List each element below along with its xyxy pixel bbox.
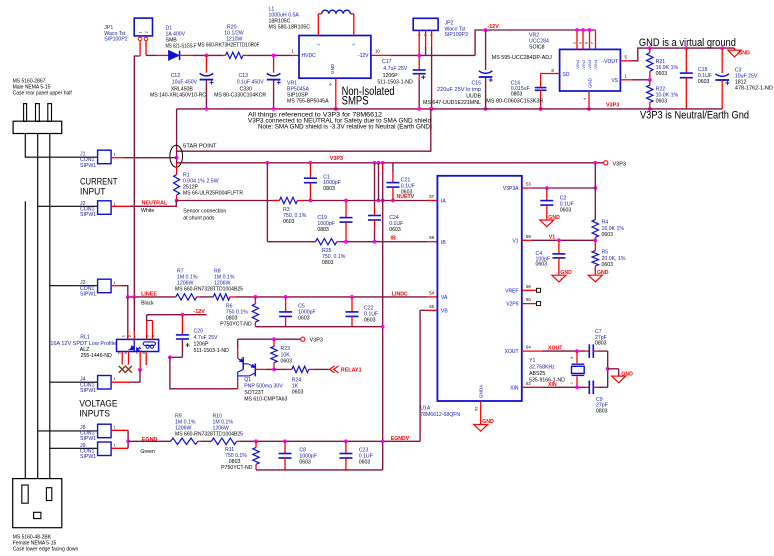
svg-text:at shunt pads: at shunt pads: [183, 216, 215, 222]
wire VB stub: [427, 309, 437, 311]
junctions IB row: [344, 240, 348, 244]
capacitor C19: [345, 201, 347, 218]
svg-text:R5: R5: [602, 250, 609, 256]
ground crystal: [608, 368, 619, 370]
wire plug prong1 down to socket: [24, 201, 26, 478]
wire filter return rail: [255, 326, 382, 328]
wire C20 bottom to node: [170, 356, 183, 358]
junction EGND row: [126, 439, 130, 443]
svg-text:255-1446-ND: 255-1446-ND: [81, 353, 112, 359]
svg-text:0603: 0603: [560, 208, 572, 214]
svg-text:1: 1: [122, 335, 126, 337]
wire J2 neutral: [111, 205, 129, 207]
svg-text:-VIN4: -VIN4: [593, 59, 598, 70]
resistor R4: [592, 220, 598, 238]
junction C12 top: [205, 54, 209, 58]
wire V3P3A pin: [522, 187, 532, 189]
wire XIN: [522, 386, 542, 388]
wire J1 to star: [111, 157, 124, 159]
junction C20 top: [181, 313, 185, 317]
svg-text:MS 621-S1GS-F: MS 621-S1GS-F: [166, 44, 197, 50]
svg-text:LINEE: LINEE: [141, 291, 157, 297]
wire R9-R10: [201, 440, 211, 442]
svg-text:2: 2: [128, 335, 132, 337]
svg-text:0603: 0603: [656, 99, 668, 105]
junctions -VIN: [575, 28, 579, 32]
resistor R22: [649, 80, 651, 85]
svg-text:0603: 0603: [602, 262, 614, 268]
pin 4 VR2 gnd: [588, 91, 590, 109]
svg-text:PNP 500ma 30V: PNP 500ma 30V: [244, 384, 283, 390]
wire V3P3 net rail: [177, 162, 604, 164]
svg-text:White: White: [141, 208, 154, 214]
svg-text:VB: VB: [441, 308, 448, 314]
capacitor C7: [585, 350, 589, 352]
svg-text:MS 755-BP5045A: MS 755-BP5045A: [287, 99, 329, 105]
wire IA row: [303, 200, 427, 202]
svg-text:Note: SMA GND shield is -3.3V: Note: SMA GND shield is -3.3V relative t…: [258, 124, 432, 131]
svg-text:C20: C20: [194, 329, 204, 335]
svg-text:V3P3A: V3P3A: [503, 186, 519, 192]
resistor R24: [274, 368, 287, 370]
wire JP2 pin3: [431, 30, 433, 47]
svg-text:HVDC: HVDC: [302, 53, 317, 59]
svg-text:64: 64: [526, 345, 531, 350]
svg-text:4.7uF 25V: 4.7uF 25V: [383, 66, 407, 72]
wire neutral row: [177, 200, 280, 202]
capacitor C12: [205, 55, 207, 72]
svg-text:1: 1: [114, 426, 116, 430]
svg-text:54: 54: [429, 290, 434, 295]
junction C16 rail: [539, 107, 543, 111]
svg-text:5: 5: [118, 352, 122, 354]
wire J4: [111, 381, 129, 383]
svg-text:0603: 0603: [299, 460, 311, 466]
svg-text:MS 660-RN7328TTD1004B25: MS 660-RN7328TTD1004B25: [175, 287, 243, 293]
junction VR2 gnd rail: [587, 107, 591, 111]
capacitor C24: [374, 163, 376, 206]
svg-text:XIN: XIN: [548, 382, 557, 388]
svg-text:GND: GND: [330, 63, 335, 74]
svg-text:0603: 0603: [656, 71, 668, 77]
svg-text:V3P3: V3P3: [310, 338, 323, 344]
svg-text:8: 8: [551, 68, 554, 73]
svg-text:R4: R4: [602, 220, 609, 226]
svg-text:R23: R23: [281, 346, 291, 352]
svg-text:LINDC: LINDC: [392, 291, 408, 297]
junction base node: [272, 368, 276, 372]
crystal Y1: [576, 351, 578, 363]
svg-text:SMPS: SMPS: [342, 96, 369, 108]
resistor R11: [255, 441, 257, 447]
junctions EGNDV row: [254, 439, 258, 443]
svg-text:3: 3: [352, 44, 356, 46]
svg-text:V3P3: V3P3: [606, 102, 619, 108]
wire V3P3 riser right: [594, 163, 596, 220]
svg-text:1: 1: [114, 153, 116, 157]
svg-text:SOIC8: SOIC8: [529, 45, 545, 51]
svg-text:0.1uF 450V: 0.1uF 450V: [237, 80, 264, 86]
capacitor C1: [309, 163, 311, 178]
svg-text:511-1503-1-ND: 511-1503-1-ND: [194, 348, 230, 354]
svg-text:58: 58: [429, 235, 434, 240]
wire plug prong1 to J1: [25, 134, 97, 158]
svg-text:1: 1: [292, 49, 295, 54]
junction crystal top: [575, 349, 579, 353]
regulator VR2 UCC284: [560, 49, 621, 91]
wire JP1 pin1: [139, 41, 141, 56]
svg-text:0603: 0603: [401, 190, 413, 196]
svg-text:XIN: XIN: [510, 385, 519, 391]
pin V2P5: [522, 303, 536, 305]
svg-text:INPUT: INPUT: [80, 186, 106, 197]
junction V3P3A riser: [593, 186, 597, 190]
resistor R25: [311, 241, 316, 243]
svg-text:XOUT: XOUT: [505, 349, 519, 355]
svg-text:C17: C17: [382, 59, 392, 65]
connector J1: [98, 150, 112, 164]
svg-text:1: 1: [114, 443, 116, 447]
wire relay aux: [145, 352, 147, 366]
svg-text:C15: C15: [471, 81, 481, 87]
svg-text:2: 2: [317, 44, 321, 46]
capacitor C4: [558, 240, 560, 254]
capacitor C3: [721, 48, 723, 73]
svg-text:IB: IB: [441, 240, 446, 246]
svg-text:V2P5: V2P5: [506, 302, 518, 308]
svg-text:VS: VS: [611, 78, 618, 84]
svg-text:P750YCT-ND: P750YCT-ND: [220, 322, 252, 328]
svg-text:MS 610-CMPTA63: MS 610-CMPTA63: [244, 397, 287, 403]
svg-text:52: 52: [473, 406, 478, 411]
wire -12V to coil: [147, 315, 153, 321]
svg-text:-12V: -12V: [488, 24, 500, 30]
pin GNDA: [480, 401, 482, 424]
svg-text:0803: 0803: [595, 341, 607, 347]
wire EGND row: [128, 440, 171, 442]
svg-text:INPUTS: INPUTS: [79, 408, 110, 419]
capacitor C5: [285, 297, 287, 312]
capacitor C22: [351, 297, 353, 312]
junction C2 top: [545, 186, 549, 190]
resistor R3: [274, 200, 280, 202]
wire V3P3 rail: [177, 108, 723, 110]
svg-text:32.768KHz: 32.768KHz: [529, 365, 555, 371]
wire VB riser: [419, 310, 421, 441]
wire R20 to HVDC pin: [247, 54, 290, 56]
svg-text:Y1: Y1: [529, 358, 535, 364]
svg-text:1: 1: [570, 382, 574, 384]
svg-text:4: 4: [583, 98, 587, 100]
svg-text:SOT23T: SOT23T: [244, 390, 264, 396]
wire to RELAY1: [313, 368, 329, 370]
capacitor C20: [181, 315, 183, 335]
resistor R1 shunt: [176, 163, 178, 175]
wire relay bottom pins nc: [121, 352, 123, 365]
capacitor C23: [345, 441, 347, 453]
wire JP2 pin2: [425, 30, 427, 47]
pin 6 VR1 gnd stub: [335, 78, 337, 109]
svg-text:0603: 0603: [359, 460, 371, 466]
wire Q1 base: [255, 368, 267, 370]
svg-text:-VIN3: -VIN3: [587, 59, 592, 70]
wire relay pin top2: [133, 297, 135, 331]
svg-text:Sensor connection: Sensor connection: [183, 209, 226, 215]
terminal V3P3 right: [604, 161, 608, 165]
IC U1A 78M6612: [437, 176, 521, 401]
svg-text:SIPW1: SIPW1: [80, 291, 96, 297]
svg-text:Q1: Q1: [244, 377, 251, 383]
capacitor C2: [546, 188, 548, 201]
svg-text:2: 2: [573, 42, 577, 44]
junction star point: [175, 156, 179, 160]
svg-text:ABS25: ABS25: [529, 371, 545, 377]
svg-text:50: 50: [526, 297, 531, 302]
capacitor C21: [392, 163, 394, 172]
wire JP2 pin1: [418, 30, 420, 55]
svg-text:SIPW1: SIPW1: [80, 388, 96, 394]
svg-text:V3P3 is Neutral/Earth Gnd: V3P3 is Neutral/Earth Gnd: [640, 109, 749, 121]
svg-text:Case lower edge facing down: Case lower edge facing down: [13, 547, 79, 553]
svg-text:P750YCT-ND: P750YCT-ND: [221, 465, 253, 471]
svg-text:8: 8: [142, 352, 146, 354]
junction VR1 gnd: [334, 107, 338, 111]
wire EGND filter rail: [256, 469, 383, 471]
ground symbol top right: [734, 48, 736, 50]
wire -12V from VR1: [371, 54, 391, 56]
svg-text:20.0K, 1%: 20.0K, 1%: [602, 256, 626, 262]
wire V3P3 riser long: [382, 163, 384, 172]
wire IB row left: [267, 241, 315, 243]
connector socket female NEMA 5-15: [13, 479, 62, 528]
svg-text:0803: 0803: [322, 260, 334, 266]
svg-text:0803: 0803: [596, 409, 608, 415]
svg-text:6: 6: [329, 83, 333, 85]
svg-text:511-1503-1-ND: 511-1503-1-ND: [377, 79, 413, 85]
svg-text:IB: IB: [391, 236, 396, 242]
svg-text:MS 660-RN7328TTD1004B25: MS 660-RN7328TTD1004B25: [175, 432, 243, 438]
connector JP2: [413, 18, 438, 30]
svg-text:XRL450B: XRL450B: [171, 86, 194, 92]
junction JP2 pin3 rail: [430, 107, 434, 111]
svg-text:EGNDV: EGNDV: [391, 436, 410, 442]
wire rail to IA stub: [378, 163, 380, 201]
svg-text:V3P3: V3P3: [613, 161, 626, 167]
capacitor C15: [485, 30, 487, 70]
svg-text:3: 3: [146, 335, 150, 337]
svg-text:C13: C13: [239, 73, 249, 79]
svg-text:XOUT: XOUT: [548, 346, 563, 352]
wire star riser right: [177, 109, 431, 151]
vertical rail to IB: [266, 163, 268, 242]
svg-text:7: 7: [591, 42, 595, 44]
svg-text:220uF 25V lo imp: 220uF 25V lo imp: [437, 87, 481, 93]
wire V3P3 pullup: [238, 338, 301, 340]
svg-text:Green: Green: [140, 449, 155, 455]
svg-text:NEUTRAL: NEUTRAL: [142, 200, 168, 206]
svg-text:0603: 0603: [364, 318, 376, 324]
junctions IA row: [309, 199, 313, 203]
connector J8: [98, 424, 112, 438]
svg-text:57: 57: [429, 194, 434, 199]
svg-text:10uF 450V: 10uF 450V: [172, 80, 198, 86]
junction gnd side: [606, 367, 610, 371]
svg-text:Case rear panel upper half: Case rear panel upper half: [13, 91, 73, 97]
svg-text:55: 55: [429, 304, 434, 309]
svg-text:-VIN1: -VIN1: [575, 59, 580, 70]
junctions VA row: [254, 295, 258, 299]
svg-text:SD: SD: [563, 72, 570, 78]
svg-text:4: 4: [152, 335, 156, 337]
regulator VR1 Non-Isolated SMPS box: [299, 36, 371, 79]
junction V1 row: [557, 238, 561, 242]
connector J9: [98, 442, 112, 456]
svg-text:1206P: 1206P: [383, 73, 399, 79]
resistor R6: [254, 297, 256, 304]
junction rail C12: [205, 107, 209, 111]
wire J8: [111, 429, 128, 431]
pin VREF: [522, 289, 536, 291]
capacitor C8: [284, 441, 286, 453]
svg-text:4.7uF 25V: 4.7uF 25V: [194, 335, 218, 341]
resistor R7: [176, 294, 197, 300]
terminal V3P3 relay: [301, 337, 305, 341]
svg-text:C330: C330: [240, 86, 253, 92]
svg-text:MS 660-RK73H2ETTD10R0F: MS 660-RK73H2ETTD10R0F: [198, 43, 260, 49]
svg-text:Black: Black: [141, 301, 154, 307]
wire EGNDV row: [240, 440, 420, 442]
svg-text:1: 1: [625, 73, 628, 78]
wire V1 row: [522, 239, 532, 241]
svg-text:MS 80-C330C104KCR: MS 80-C330C104KCR: [214, 93, 266, 99]
resistor R8: [213, 294, 230, 300]
svg-text:56: 56: [526, 284, 531, 289]
svg-text:MS 580-18R105C: MS 580-18R105C: [269, 25, 311, 31]
wire R7-R8: [200, 296, 213, 298]
svg-text:V1: V1: [512, 238, 518, 244]
junction R1 bottom: [175, 199, 179, 203]
junction rail star riser: [429, 107, 433, 111]
wire SD pin: [541, 73, 560, 75]
svg-text:GND: GND: [588, 78, 593, 88]
wire to J9: [50, 447, 98, 449]
svg-text:GNDA: GNDA: [479, 384, 484, 398]
resistor R5: [594, 240, 596, 250]
svg-text:VREF: VREF: [505, 288, 518, 294]
svg-text:C12: C12: [171, 73, 181, 79]
svg-text:SIPW1: SIPW1: [80, 436, 96, 442]
wire JP1 riser to LINEE: [133, 56, 135, 297]
svg-text:0603: 0603: [698, 79, 710, 85]
junction VS node: [648, 78, 652, 82]
svg-text:V1: V1: [549, 234, 555, 240]
svg-text:ALZ: ALZ: [80, 347, 90, 353]
junction C20 node: [168, 355, 172, 359]
connector J3: [98, 279, 112, 293]
wire to J8: [38, 430, 98, 432]
wire plug prong3 to J3: [49, 134, 51, 479]
wire VS: [620, 79, 632, 81]
junctions on V3P3 rail: [266, 161, 270, 165]
svg-text:5: 5: [625, 54, 628, 59]
wire IB row right: [341, 241, 427, 243]
svg-text:0603: 0603: [283, 219, 295, 225]
wire J9: [111, 447, 128, 449]
wire -12V stub: [147, 314, 207, 316]
svg-text:EGND: EGND: [142, 437, 158, 443]
svg-text:0603: 0603: [292, 390, 304, 396]
junction crystal bottom: [575, 385, 579, 389]
svg-text:UUDB: UUDB: [466, 94, 481, 100]
svg-text:2: 2: [145, 31, 149, 33]
svg-text:MS 647-UUD1E221MNL: MS 647-UUD1E221MNL: [423, 100, 481, 106]
resistor R23: [273, 339, 275, 346]
wire -12V up: [475, 30, 595, 55]
wire plug prong2 to J2: [37, 134, 39, 479]
svg-text:U1A: U1A: [420, 406, 431, 412]
svg-text:MS 595-UCC284DP-ADJ: MS 595-UCC284DP-ADJ: [492, 55, 552, 61]
resistor R9: [171, 438, 198, 444]
svg-text:6: 6: [585, 42, 589, 44]
offpage RELAY1: [330, 366, 339, 373]
svg-text:VA: VA: [441, 295, 448, 301]
svg-text:IA: IA: [441, 199, 446, 205]
wire XOUT: [522, 350, 542, 352]
svg-text:RL1: RL1: [80, 334, 90, 340]
svg-text:7: 7: [136, 352, 140, 354]
wires VR2 -VIN pins: [576, 30, 578, 49]
transistor Q1 PNP: [237, 349, 239, 359]
svg-text:0803: 0803: [317, 227, 329, 233]
svg-text:SIPW1: SIPW1: [80, 212, 96, 218]
inductor L1: [317, 14, 319, 36]
junction C15 rail: [484, 107, 488, 111]
svg-text:62: 62: [526, 381, 531, 386]
junction return rail riser: [381, 325, 385, 329]
wire JP1 pin2: [145, 41, 147, 56]
svg-text:0603: 0603: [389, 227, 401, 233]
wire -VOUT: [620, 60, 630, 62]
connector J4: [98, 376, 112, 390]
svg-text:-VOUT: -VOUT: [602, 59, 618, 65]
svg-text:MS 80-C0603C153K3R: MS 80-C0603C153K3R: [486, 98, 543, 104]
junction LINEE: [126, 295, 130, 299]
svg-text:0803: 0803: [511, 92, 523, 98]
resistor R20: [223, 54, 225, 56]
svg-text:0603: 0603: [536, 262, 548, 268]
svg-text:59: 59: [526, 234, 531, 239]
junction JP2/C17: [417, 54, 421, 58]
svg-text:0603: 0603: [298, 316, 310, 322]
svg-text:53: 53: [526, 181, 531, 186]
wire J3: [111, 285, 122, 287]
svg-text:-12V: -12V: [358, 53, 369, 59]
junction R23 top: [272, 337, 276, 341]
wire relay common: [139, 352, 141, 370]
svg-text:SIPW1: SIPW1: [80, 163, 96, 169]
junction R22 rail: [648, 107, 652, 111]
junction C13 top: [272, 54, 276, 58]
wire HVDC: [146, 54, 157, 56]
svg-text:10: 10: [375, 49, 380, 54]
svg-text:1: 1: [139, 31, 143, 33]
svg-text:0603: 0603: [602, 232, 614, 238]
connector plug male NEMA 5-15: [24, 104, 27, 122]
svg-text:SIP100P2: SIP100P2: [104, 37, 127, 43]
svg-text:0803: 0803: [323, 186, 335, 192]
wire VA row: [235, 296, 427, 298]
capacitor C9: [585, 386, 589, 388]
